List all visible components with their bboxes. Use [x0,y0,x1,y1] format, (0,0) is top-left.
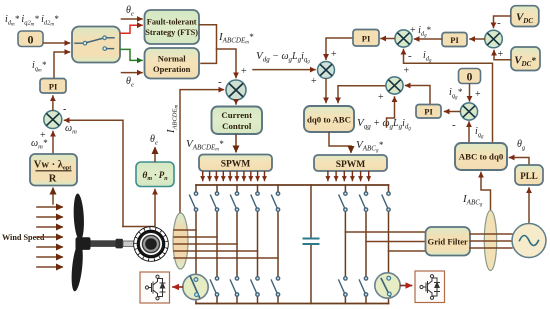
wire Vw block to F [52,132,54,154]
junction A idg error [395,30,412,47]
grid phase line 3 to filter [389,250,426,252]
machine winding ellipse [173,213,188,269]
block Current Control [212,107,263,135]
svg-text:-: - [63,104,66,115]
machine converter leg 1 [195,185,197,304]
wire G to Current Control [235,101,237,105]
svg-text:Current: Current [221,110,252,120]
IGBT detail box machine [140,272,170,303]
wire I_ABCDEm feedback to junction G [180,90,224,212]
svg-text:+: + [498,49,504,60]
wire theta_e to Normal [122,72,143,74]
block PI bottom-left [416,105,441,119]
grid converter leg 1 [344,185,346,304]
block V_DC [511,6,539,27]
shaft coupling [116,239,124,249]
machine zoom circle switch [183,274,208,299]
wire I_ABCg measurement to ABC-dq0 [481,173,491,212]
svg-text:PI: PI [362,34,371,44]
svg-text:-: - [452,119,456,131]
svg-text:+: + [311,76,317,87]
wire Vqg feedforward to D [387,97,395,127]
shaft light segment [123,241,135,246]
svg-text:+: + [475,89,481,100]
svg-text:Strategy (FTS): Strategy (FTS) [145,28,198,37]
filter to grid line 2 [470,240,512,242]
block theta_m Pn [136,162,174,187]
block PI right [442,33,467,47]
svg-text:Operation: Operation [153,64,191,74]
svg-text:Fault-tolerant: Fault-tolerant [147,18,197,27]
wire B to PI-right [470,38,485,40]
wind arrow 2 [37,216,62,218]
machine top switch S3 [231,192,239,211]
wire wind stub to Vw block [52,189,54,205]
svg-text:+: + [241,66,247,77]
wire switch to FTS (red) [121,25,143,33]
junction D q-axis [386,77,403,94]
wire Vdg feedforward to junction E [253,69,315,71]
machine phase line 1 [174,229,196,231]
svg-text:+: + [331,49,337,60]
svg-text:PLL: PLL [520,171,538,181]
svg-text:0: 0 [28,33,34,47]
svg-text:Grid Filter: Grid Filter [428,237,469,247]
wind arrow 4 [37,236,62,238]
dc bottom bus [196,303,389,305]
machine phase line 4 [174,250,258,252]
wire V_DC to B [494,16,511,28]
grid phase line 2 to filter [366,241,425,243]
wire switch to Normal (green) [121,49,143,60]
gate signal arrows SPWM machine (10) [203,172,265,181]
wire E to dq0-ABC [325,79,327,103]
wire PI-bl to D [406,86,431,104]
switch blade [87,38,103,42]
svg-text:-: - [408,50,412,62]
grid CT ellipse [484,211,496,271]
machine phase line 2 [174,236,217,238]
block V_DC* [511,47,540,71]
block SPWM machine [199,155,272,172]
svg-text:PI: PI [450,35,459,45]
capacitor dc link [304,185,319,304]
wire iqg feedback to C [468,122,470,143]
wire A to PI-mid [381,38,395,40]
wire dq0-ABC to SPWM-g [329,133,351,153]
switch throw-2 wire [107,48,114,50]
grid converter leg 3 [388,185,390,304]
block PI speed [40,79,66,94]
svg-text:PI: PI [49,82,58,92]
svg-text:ABC to dq0: ABC to dq0 [459,152,504,162]
wire PI-mid to E [326,38,353,59]
wire omega_m feedback [65,120,124,226]
grid source [512,224,546,258]
wind arrow 3 [37,226,62,228]
wind arrow 6 [37,256,62,258]
wind arrow 7 [37,266,62,268]
generator gear [133,226,169,262]
grid bottom switch T5 [359,277,367,297]
block PI mid [353,30,379,47]
machine bottom switch S7 [210,277,218,297]
machine phase line 5 [174,257,278,259]
block mode switch [72,27,120,63]
IGBT detail box grid [415,271,445,303]
wire FTS+Normal outputs to junction G [200,25,217,64]
block dq0 to ABC [304,106,354,132]
switch pole contact [83,41,87,45]
wire grid source to PLL [528,188,530,223]
wire zero to C [469,84,471,101]
svg-text:SPWM: SPWM [221,160,251,170]
junction B Vdc error [485,30,503,48]
machine top switch S1 [190,192,198,211]
gate signal arrows SPWM grid (6) [328,172,369,181]
machine top switch S5 [272,192,280,211]
dc top bus [196,184,389,186]
turbine blade upper [73,193,85,240]
block Vw lambda over R [30,154,77,186]
red arrow machine zoom to IGBT [173,286,183,288]
wind arrow 5 [37,246,62,248]
wire theta_e to FTS [122,18,143,20]
block PLL [515,165,543,185]
turbine blade lower [70,242,85,292]
switch throw-1 contact [103,36,107,40]
svg-text:Control: Control [222,121,252,131]
grid phase line 1 to filter [345,231,425,233]
filter to grid line 1 [470,233,512,235]
wire PI-speed up to switch [54,52,70,78]
wind arrow 1 [37,206,62,208]
grid zoom circle switch [375,273,400,298]
block ABC to dq0 [455,143,507,170]
junction G current error [226,80,246,100]
switch pole wire [75,42,83,44]
turbine hub [76,237,91,250]
wire zero to switch [44,42,70,44]
wire Current Control to SPWM-m [235,135,237,152]
machine converter leg 5 [277,185,279,304]
svg-text:-: - [497,17,501,29]
machine converter leg 3 [236,185,238,304]
svg-text:+: + [378,92,384,103]
wire F to PI [52,96,54,110]
block FTS [145,10,200,44]
machine top switch S4 [251,192,259,211]
block zero-left [18,31,43,47]
svg-text:-: - [218,76,222,88]
red arrow grid zoom to IGBT [401,285,412,287]
block Grid Filter [426,227,471,256]
switch throw-1 wire [106,37,114,39]
machine converter leg 4 [257,185,259,304]
svg-text:0: 0 [467,72,473,84]
wire idg feedback to A [404,50,493,143]
machine bottom switch S10 [271,277,279,297]
machine phase line 3 [174,243,237,245]
wire D to dq0-ABC [338,86,386,103]
wire C to PI-bl [445,111,461,113]
svg-text:SPWM: SPWM [336,160,366,170]
grid converter leg 2 [365,185,367,304]
svg-text:+: + [404,66,410,77]
machine top switch S2 [211,192,219,211]
wire shaft junction to theta-m block [123,190,155,227]
block zero-right [459,69,481,84]
svg-text:PI: PI [424,107,433,117]
junction E d-axis [318,62,335,79]
turbine shaft [90,240,118,247]
wire PI-right to A [415,38,442,40]
grid top switch T3 [382,192,390,211]
machine converter leg 2 [216,185,218,304]
machine bottom switch S9 [251,277,259,297]
grid top switch T1 [339,192,347,211]
svg-text:Normal: Normal [158,54,186,64]
wire V_DC* to B [494,51,511,60]
junction F speed error [44,111,62,129]
wire theta_m Pn output stub [154,148,156,162]
switch throw-2 contact [103,47,107,51]
machine bottom switch S8 [230,277,238,297]
junction C iqg error [460,103,477,120]
filter to grid line 3 [470,247,512,249]
block Normal Operation [145,48,200,79]
grid top switch T2 [360,192,368,211]
grid bottom switch T4 [339,277,347,297]
svg-text:R: R [49,174,57,185]
wire PLL to ABC-dq0 [510,158,530,165]
svg-text:dq0 to ABC: dq0 to ABC [307,115,351,125]
block SPWM grid [314,155,387,171]
